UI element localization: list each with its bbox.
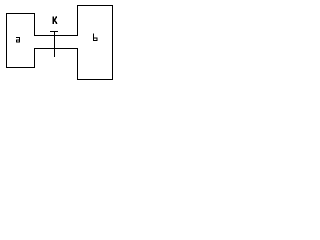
- vessel a top wall: [6, 13, 35, 15]
- vessel a bottom wall: [6, 67, 35, 69]
- vessel b right wall: [112, 5, 114, 80]
- vessel b top wall: [77, 5, 113, 7]
- pipe top wall: [34, 35, 78, 37]
- tap K stem: [54, 31, 56, 57]
- vessel b bottom wall: [77, 79, 113, 81]
- tap K handle bar: [50, 31, 58, 33]
- label b: [93, 33, 98, 41]
- vessel b left wall lower segment: [77, 48, 79, 80]
- vessel b left wall upper segment: [77, 5, 79, 36]
- label K: [53, 16, 54, 24]
- vessel a right wall lower segment: [34, 48, 36, 68]
- vessel a right wall upper segment: [34, 13, 36, 36]
- vessel a left wall: [6, 13, 8, 68]
- label a: [16, 37, 20, 43]
- pipe bottom wall: [34, 48, 78, 50]
